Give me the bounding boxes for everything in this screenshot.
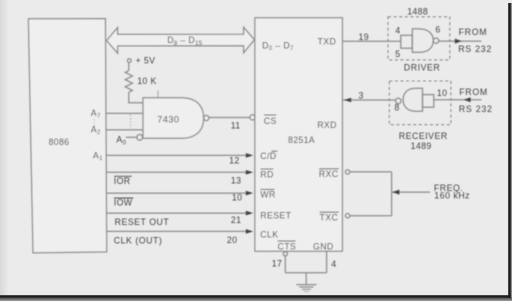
bottom border frame — [0, 295, 512, 301]
wire resistor to gate input — [129, 92, 143, 103]
ground symbol — [296, 285, 316, 292]
wire CS from gate to 8251A — [209, 117, 250, 119]
svg-text:FROM: FROM — [459, 27, 488, 37]
driver output bubble — [433, 38, 438, 43]
svg-text:DRIVER: DRIVER — [404, 62, 441, 72]
A0 inverter bubble — [137, 135, 143, 141]
stray tick above gate — [157, 91, 159, 98]
svg-text:CLK (OUT): CLK (OUT) — [114, 236, 163, 246]
svg-text:160 kHz: 160 kHz — [434, 191, 470, 201]
arrow into RXD — [344, 98, 351, 103]
wire CTS pin 17 down — [284, 256, 286, 273]
svg-text:RESET OUT: RESET OUT — [115, 217, 170, 227]
arrow FREQ — [392, 190, 399, 195]
dashed box RECEIVER — [389, 81, 451, 125]
label CTS — [278, 241, 297, 251]
svg-text:TXC: TXC — [320, 213, 339, 223]
receiver output tie block — [423, 95, 434, 108]
svg-text:RESET: RESET — [260, 211, 291, 221]
left scan shadow — [0, 0, 9, 295]
svg-text:WR: WR — [260, 190, 275, 200]
label CS — [264, 115, 277, 126]
svg-text:GND: GND — [313, 242, 334, 252]
CTS bubble pin 17 — [283, 252, 287, 256]
wire FREQ input — [392, 191, 430, 193]
svg-text:10: 10 — [232, 193, 243, 203]
svg-text:4: 4 — [331, 259, 336, 269]
wire to ground — [305, 273, 307, 285]
svg-text:C/D: C/D — [260, 151, 276, 161]
RXC bubble — [345, 170, 349, 174]
svg-text:12: 12 — [229, 156, 240, 166]
wire RXD from receiver — [342, 99, 395, 101]
svg-text:7430: 7430 — [157, 115, 179, 125]
svg-text:17: 17 — [272, 258, 283, 268]
label WR — [260, 189, 275, 199]
wire IOR to RD pin 13 — [106, 171, 246, 173]
TXC bubble — [345, 214, 349, 218]
svg-text:10 K: 10 K — [137, 76, 157, 86]
svg-text:4: 4 — [395, 26, 400, 36]
wire A1 to C/D pin 12 — [106, 154, 246, 156]
svg-text:8086: 8086 — [49, 137, 70, 147]
svg-text:RS 232: RS 232 — [458, 44, 492, 54]
receiver input bubble pin 8 — [396, 98, 402, 104]
right border frame — [508, 3, 512, 298]
svg-text:8: 8 — [394, 103, 399, 113]
arrow into WR — [246, 191, 253, 196]
wire IOW to WR pin 10 — [106, 192, 246, 194]
arrow into RESET — [246, 211, 253, 216]
driver input tie block pins 4,5 — [401, 35, 413, 48]
label IOR — [114, 176, 132, 186]
arrow RS232 in (receiver) — [464, 97, 471, 102]
svg-text:IOW: IOW — [114, 198, 133, 208]
wire +5V to resistor — [128, 63, 130, 71]
NAND gate 7430 body — [143, 98, 204, 139]
arrow into CLK — [246, 229, 253, 234]
dotted continuation A3..A6 — [130, 115, 132, 128]
label TXC — [320, 212, 339, 222]
svg-text:FROM: FROM — [459, 87, 488, 97]
wire GND pin 4 down — [326, 251, 328, 273]
svg-text:RXD: RXD — [317, 120, 337, 130]
svg-text:RECEIVER: RECEIVER — [399, 131, 448, 141]
filled arrowheads — [246, 39, 471, 234]
wire driver output to RS232 — [439, 40, 482, 42]
arrow into C/D — [246, 153, 253, 158]
svg-text:20: 20 — [227, 235, 238, 245]
receiver gate 1489 body — [403, 88, 422, 111]
data bus double arrow D8-D15 — [107, 27, 255, 53]
wire A2 input — [106, 129, 143, 131]
svg-text:5: 5 — [395, 49, 400, 59]
svg-text:CTS: CTS — [278, 241, 297, 251]
label RD — [260, 169, 273, 179]
svg-text:D0 – D7: D0 – D7 — [262, 41, 294, 53]
wire RXC — [350, 171, 392, 173]
svg-text:RS 232: RS 232 — [459, 104, 493, 114]
dotted between A7 A2 — [93, 119, 95, 126]
wire CLK OUT to CLK pin 20 — [106, 230, 246, 232]
svg-text:+ 5V: + 5V — [136, 56, 156, 66]
wire receiver output to RS232 — [434, 99, 482, 101]
resistor R 10K — [125, 71, 132, 93]
wire RESET OUT to RESET pin 21 — [106, 212, 246, 214]
label RXC — [319, 169, 339, 179]
svg-text:10: 10 — [437, 88, 448, 98]
CS input bubble at 8251A — [250, 115, 255, 120]
svg-text:RD: RD — [260, 169, 273, 179]
svg-text:RXC: RXC — [319, 169, 339, 179]
microprocessor 8086 box — [28, 19, 106, 253]
svg-text:6: 6 — [435, 25, 440, 35]
arrow RS232 out (driver) — [455, 39, 462, 44]
wire TXD to driver — [342, 40, 400, 42]
svg-text:13: 13 — [231, 176, 242, 186]
USART 8251A box — [255, 18, 343, 251]
wire RXC-TXC vertical join — [391, 172, 393, 216]
svg-text:CS: CS — [264, 116, 277, 126]
arrow into RD — [246, 170, 253, 175]
wire TXC — [350, 215, 392, 217]
wire CTS-GND join — [285, 272, 326, 274]
+5V terminal — [127, 59, 131, 63]
svg-text:1489: 1489 — [411, 141, 432, 151]
svg-text:TXD: TXD — [318, 37, 337, 47]
svg-text:CLK: CLK — [260, 230, 278, 240]
svg-text:1488: 1488 — [407, 6, 428, 16]
7430 output bubble — [204, 115, 209, 120]
svg-text:3: 3 — [359, 90, 364, 100]
svg-text:11: 11 — [231, 120, 241, 130]
label IOW — [114, 198, 134, 208]
svg-text:IOR: IOR — [114, 176, 131, 186]
dashed box DRIVER — [388, 17, 450, 60]
svg-text:21: 21 — [231, 215, 242, 225]
wire A7 input — [106, 112, 143, 114]
svg-text:19: 19 — [359, 32, 370, 42]
svg-text:8251A: 8251A — [288, 135, 315, 145]
label C/D — [260, 151, 277, 161]
driver NAND gate 1488 body — [412, 29, 433, 52]
wire A0 input — [126, 136, 137, 138]
